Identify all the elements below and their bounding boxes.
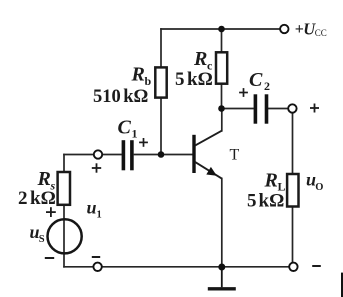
junction Rc top — [218, 26, 225, 33]
label plus output — [310, 104, 319, 113]
label minus input — [92, 256, 100, 258]
label plus C2 — [239, 88, 248, 97]
svg-text:R: R — [37, 168, 51, 190]
wire Rb column — [160, 29, 162, 155]
junction emitter-ground — [218, 264, 225, 271]
svg-text:1: 1 — [97, 209, 102, 220]
wire bottom rail right — [102, 266, 290, 268]
wire bottom rail left — [64, 266, 94, 268]
node input bottom terminal — [93, 263, 101, 271]
label minus source — [45, 257, 54, 259]
transistor T — [194, 131, 222, 179]
node input top terminal — [94, 150, 102, 158]
capacitor C1 plates — [123, 140, 131, 170]
svg-text:1: 1 — [132, 127, 138, 141]
svg-text:CC: CC — [315, 28, 327, 38]
svg-text:T: T — [230, 146, 240, 163]
resistor RL — [287, 174, 298, 207]
svg-text:2: 2 — [264, 79, 270, 93]
svg-text:5kΩ: 5kΩ — [247, 190, 284, 211]
svg-text:R: R — [193, 48, 207, 70]
ground — [208, 267, 236, 289]
wire top rail — [161, 28, 280, 30]
label plus source — [46, 207, 56, 217]
junction Rb-base — [158, 151, 165, 158]
artifact black bar bottom right — [341, 273, 343, 297]
svg-text:O: O — [315, 182, 323, 193]
wire output column — [292, 113, 294, 263]
junction Rc bottom — [218, 105, 225, 112]
capacitor C2 plates — [255, 94, 266, 123]
svg-text:S: S — [39, 234, 45, 245]
svg-text:R: R — [264, 169, 278, 191]
svg-text:2kΩ: 2kΩ — [18, 188, 56, 209]
resistor Rb — [155, 67, 166, 97]
node +Ucc terminal — [280, 25, 288, 33]
wire input top left — [64, 154, 94, 156]
svg-text:C: C — [118, 117, 132, 139]
wire C2 left — [222, 108, 254, 110]
node output top terminal — [288, 104, 296, 112]
source uS circle — [48, 219, 82, 253]
wire C2 right — [269, 108, 289, 110]
label minus output — [312, 265, 321, 267]
svg-text:510kΩ: 510kΩ — [93, 87, 148, 107]
label plus C1 — [139, 138, 148, 147]
svg-text:u: u — [87, 198, 97, 218]
svg-text:C: C — [249, 69, 263, 91]
wire Rc column — [221, 29, 223, 109]
wire C1 to base — [102, 154, 121, 156]
node output bottom terminal — [289, 263, 297, 271]
label plus input — [92, 163, 101, 172]
wire emitter vertical — [221, 179, 223, 267]
wire collector vertical — [221, 109, 223, 131]
resistor Rs — [58, 172, 70, 205]
wire base — [135, 154, 194, 156]
wire left column — [63, 155, 65, 267]
resistor Rc — [216, 52, 227, 83]
svg-text:R: R — [131, 64, 145, 86]
svg-text:5kΩ: 5kΩ — [175, 69, 213, 90]
